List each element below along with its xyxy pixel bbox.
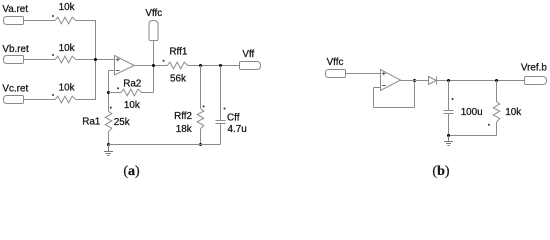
svg-text:25k: 25k [114,117,130,128]
svg-text:100u: 100u [461,107,483,118]
svg-text:Vffc: Vffc [145,8,162,19]
svg-text:10k: 10k [505,107,521,118]
svg-text:18k: 18k [176,124,192,135]
svg-text:Vb.ret: Vb.ret [2,44,29,55]
svg-text:10k: 10k [124,100,140,111]
svg-text:Rff2: Rff2 [174,111,192,122]
svg-text:56k: 56k [170,73,186,84]
svg-text:10k: 10k [59,2,75,13]
svg-text:Ra1: Ra1 [82,117,101,128]
svg-text:Va.ret: Va.ret [2,4,28,15]
svg-text:(a): (a) [123,164,140,179]
svg-text:Cff: Cff [227,113,240,124]
svg-text:Rff1: Rff1 [169,47,187,58]
svg-text:4.7u: 4.7u [228,124,247,135]
svg-text:Ra2: Ra2 [123,79,141,90]
svg-text:10k: 10k [59,82,75,93]
svg-text:Vff: Vff [242,49,254,60]
svg-text:Vc.ret: Vc.ret [2,84,28,95]
svg-text:(b): (b) [432,164,449,179]
svg-text:Vffc: Vffc [327,57,344,68]
svg-text:10k: 10k [59,43,75,54]
svg-text:Vref.b: Vref.b [521,63,547,74]
